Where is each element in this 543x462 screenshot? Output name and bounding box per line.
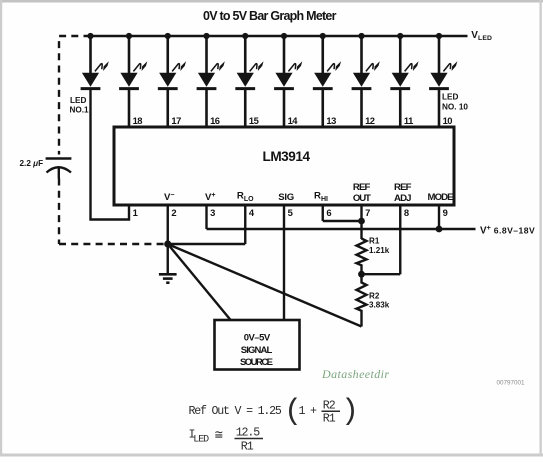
svg-text:13: 13: [326, 115, 336, 126]
svg-text:REF: REF: [353, 182, 371, 193]
svg-text:R1: R1: [323, 412, 336, 425]
svg-text:RHI: RHI: [314, 191, 328, 204]
svg-text:R2: R2: [369, 291, 380, 300]
svg-text:2: 2: [171, 207, 176, 218]
svg-text:V+: V+: [205, 192, 216, 203]
svg-text:VLED: VLED: [471, 30, 492, 42]
svg-text:3: 3: [210, 207, 215, 218]
svg-text:(: (: [284, 395, 302, 429]
svg-text:3.83k: 3.83k: [369, 301, 390, 310]
svg-text:1: 1: [133, 207, 138, 218]
svg-text:ADJ: ADJ: [394, 193, 412, 204]
svg-text:5: 5: [288, 207, 293, 218]
svg-text:SIGNAL: SIGNAL: [241, 345, 273, 356]
svg-text:0V–5V: 0V–5V: [244, 333, 271, 344]
svg-text:MODE: MODE: [428, 192, 455, 203]
svg-text:8: 8: [404, 207, 409, 218]
svg-text:OUT: OUT: [353, 193, 371, 204]
svg-text:4: 4: [249, 207, 255, 218]
svg-text:7: 7: [365, 207, 370, 218]
svg-text:≅: ≅: [215, 429, 223, 444]
svg-text:SOURCE: SOURCE: [240, 357, 273, 368]
svg-text:NO. 10: NO. 10: [442, 103, 468, 112]
svg-text:LM3914: LM3914: [263, 149, 311, 164]
svg-text:): ): [341, 395, 359, 429]
svg-text:V−: V−: [164, 192, 175, 203]
svg-text:LED: LED: [442, 92, 458, 101]
svg-text:18: 18: [133, 115, 143, 126]
svg-text:2.2 μF: 2.2 μF: [20, 159, 44, 168]
svg-text:R2: R2: [323, 399, 336, 412]
svg-text:Datasheetdir: Datasheetdir: [321, 367, 389, 381]
svg-text:6: 6: [326, 207, 331, 218]
svg-text:17: 17: [171, 115, 181, 126]
svg-text:9: 9: [443, 207, 448, 218]
svg-text:00797001: 00797001: [497, 380, 526, 387]
svg-text:11: 11: [404, 115, 413, 126]
svg-text:16: 16: [210, 115, 220, 126]
svg-text:R1: R1: [241, 441, 254, 454]
svg-text:NO.1: NO.1: [70, 105, 90, 114]
svg-text:SIG: SIG: [278, 192, 294, 203]
svg-text:12: 12: [365, 115, 375, 126]
svg-text:Ref Out V = 1.25: Ref Out V = 1.25: [189, 405, 282, 418]
svg-text:10: 10: [443, 115, 453, 126]
svg-text:RLO: RLO: [237, 191, 254, 204]
svg-text:LED: LED: [70, 96, 86, 105]
svg-text:LED: LED: [193, 435, 209, 446]
svg-text:15: 15: [249, 115, 259, 126]
svg-text:12.5: 12.5: [236, 426, 261, 439]
svg-text:REF: REF: [394, 182, 412, 193]
svg-text:0V to 5V Bar Graph Meter: 0V to 5V Bar Graph Meter: [203, 9, 337, 23]
svg-text:V+ 6.8V–18V: V+ 6.8V–18V: [480, 223, 535, 237]
svg-text:R1: R1: [369, 237, 380, 246]
svg-text:1.21k: 1.21k: [369, 246, 390, 255]
svg-text:14: 14: [288, 115, 299, 126]
